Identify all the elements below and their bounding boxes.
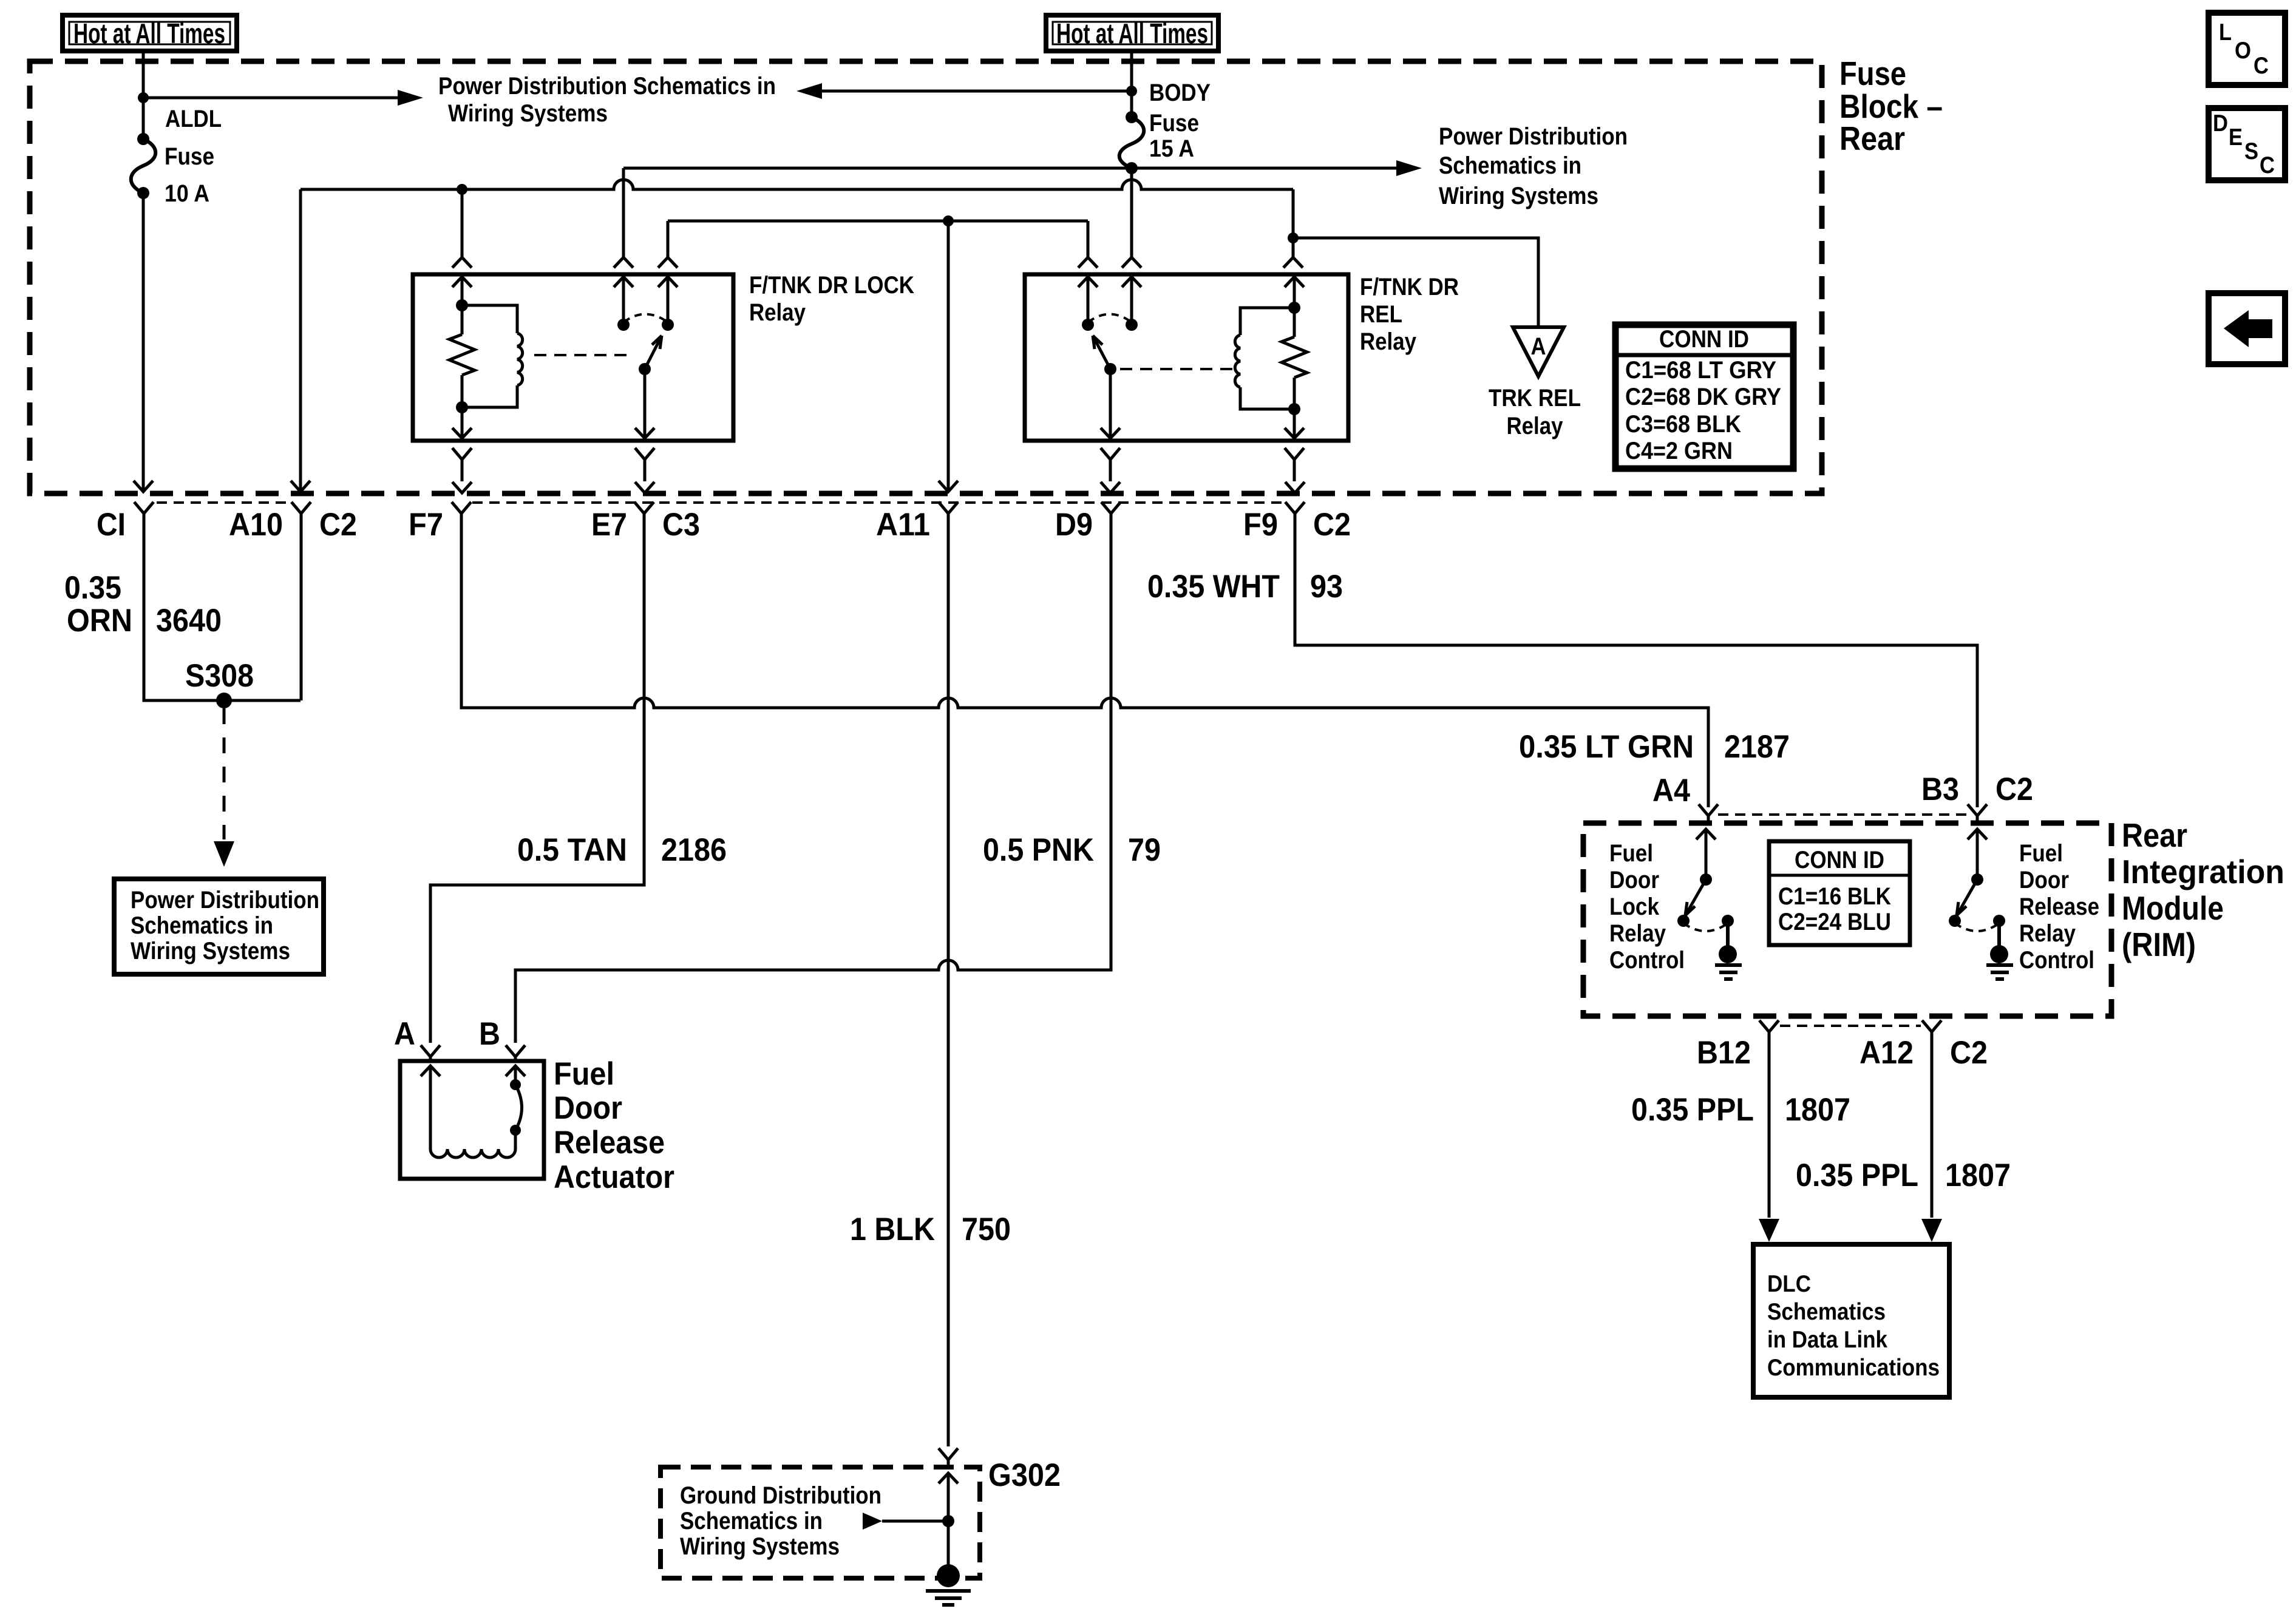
svg-text:Control: Control [1609,947,1685,974]
svg-text:C2=68 DK GRY: C2=68 DK GRY [1625,384,1781,410]
RIM pin B3 arrow in [1968,829,1987,839]
wire: bus line 3 (switch contacts link) [668,220,1088,223]
wire: line 1 corner down to LOCK relay switch contact [622,168,625,257]
svg-text:A11: A11 [876,507,930,543]
svg-text:Relay: Relay [1360,328,1417,355]
fuse ALDL 10A [131,133,156,199]
svg-text:Fuel: Fuel [554,1056,614,1092]
svg-text:A: A [1531,333,1546,360]
svg-text:2186: 2186 [661,832,727,868]
LOC box [2209,13,2285,85]
Hot at All Times box 2 [1046,15,1218,51]
svg-text:DLC: DLC [1767,1271,1811,1297]
svg-text:BODY: BODY [1149,80,1211,106]
svg-text:ORN: ORN [67,603,132,639]
svg-text:C: C [2260,152,2275,178]
DESC box [2209,108,2285,180]
svg-text:0.35: 0.35 [64,570,121,606]
svg-text:REL: REL [1360,301,1402,328]
svg-text:Actuator: Actuator [554,1159,674,1195]
wire: line2 right corner down [1292,189,1295,257]
svg-text:A10: A10 [229,507,283,543]
svg-text:C2: C2 [319,507,357,543]
RIM thin connector dash (top) [1718,813,1968,816]
svg-text:D: D [2213,110,2228,137]
REL relay coil (winding + resistor) [1235,302,1307,415]
svg-text:C2=24 BLU: C2=24 BLU [1778,909,1891,935]
RIM bottom thin connector dash [1780,1025,1921,1027]
svg-text:0.35 WHT: 0.35 WHT [1147,569,1280,605]
svg-text:Schematics in: Schematics in [131,912,273,939]
LOCK relay coil bottom exit (F7) [461,407,464,438]
node: BODY feed junction [1126,86,1137,97]
svg-text:Fuel: Fuel [2019,840,2063,867]
svg-text:0.5 TAN: 0.5 TAN [517,832,627,868]
svg-text:D9: D9 [1055,507,1093,543]
svg-text:2187: 2187 [1724,729,1790,765]
svg-text:Rear: Rear [1839,120,1905,157]
svg-text:F9: F9 [1243,507,1278,543]
svg-text:Schematics: Schematics [1767,1299,1886,1325]
back-arrow icon [2224,310,2272,347]
svg-text:Release: Release [2019,893,2099,920]
LOCK relay coil (resistor + winding) [449,299,523,413]
svg-text:Release: Release [554,1125,665,1161]
svg-text:F/TNK DR LOCK: F/TNK DR LOCK [749,272,914,299]
RIM right switch (Fuel Door Release Relay Control) [1949,873,2013,979]
wire: A10 to S308 [300,528,303,700]
Hot at All Times box 1 [63,15,237,51]
svg-text:Schematics in: Schematics in [1439,152,1581,179]
svg-text:S308: S308 [185,658,254,694]
svg-text:C1=68 LT GRY: C1=68 LT GRY [1625,357,1776,384]
RIM dashed outline (Rear Integration Module) [1583,823,2111,1016]
svg-text:C2: C2 [1313,507,1351,543]
svg-text:A4: A4 [1652,773,1690,808]
connector Y (G302 entry) [939,1448,958,1468]
connector Y (actuator B) [506,1045,525,1062]
wire: line2 left corner down to A10 [299,189,302,491]
wire: TRK REL relay feed [1293,238,1538,326]
wire from Hot box 1 [142,51,145,139]
svg-text:C3: C3 [662,507,700,543]
svg-text:Control: Control [2019,947,2094,974]
LOCK relay pin C3 contact entry [658,257,678,268]
svg-text:A12: A12 [1860,1035,1914,1071]
LOCK relay switch bottom exit (E7/C3) [635,428,654,438]
svg-text:B3: B3 [1921,771,1959,807]
connector Y (A10/C2) [291,502,311,529]
connector Y (B3/C2) [1968,804,1987,824]
svg-text:Relay: Relay [749,299,806,326]
svg-text:0.35 PPL: 0.35 PPL [1796,1158,1918,1193]
svg-text:Hot at All Times: Hot at All Times [1056,18,1208,49]
Fuel Door Release Actuator box [400,1061,544,1179]
REL relay coil entry (C2 leg) [1283,257,1303,268]
connector Y (actuator A) [421,1045,440,1062]
svg-text:C2: C2 [1950,1035,1988,1071]
RIM pin A12 exit [1922,1020,1941,1048]
svg-text:1 BLK: 1 BLK [850,1212,935,1247]
wire: bus line 1 (BODY fuse output) [623,167,1396,170]
fuse block dashed outline (Fuse Block - Rear) [30,61,1822,493]
actuator coil [430,1149,515,1158]
connector Y (CI) [134,502,154,529]
svg-text:Relay: Relay [2019,920,2076,947]
S308 dashed drop with arrow [223,708,226,839]
node S308 [216,693,232,708]
wire: BODY fuse down to REL switch contact [1130,168,1133,257]
svg-text:Wiring Systems: Wiring Systems [131,938,290,964]
wire: A11 down to G302 (1 BLK 750) [947,528,950,1446]
svg-text:E: E [2229,124,2243,151]
svg-text:Fuse: Fuse [1839,55,1906,92]
svg-text:Door: Door [554,1090,622,1126]
A11 drop from line 3 [947,221,950,491]
node: A11 tap [943,215,954,226]
svg-text:10 A: 10 A [165,180,209,207]
REL relay switch contact entries (D9 leg from line3, BODY leg) [1078,257,1098,268]
svg-text:C2: C2 [1995,771,2033,807]
wire: arrow to Power Distribution Schematics (left) [821,90,1132,93]
CONN ID table (fuse block) [1615,325,1793,469]
svg-text:Fuse: Fuse [165,143,214,170]
svg-text:3640: 3640 [156,603,222,639]
svg-text:B: B [479,1016,500,1052]
wire: CI to S308 [144,528,301,700]
svg-text:750: 750 [962,1212,1011,1247]
REL relay coil-switch dashed link [1120,368,1238,370]
fuse BODY 15A [1119,111,1144,174]
CONN ID table (RIM) [1769,841,1910,945]
svg-text:Hot at All Times: Hot at All Times [73,18,225,49]
svg-text:ALDL: ALDL [165,106,222,132]
wire: bus line 2 (A10 feed) with hops [301,180,1293,189]
svg-text:Power Distribution Schematics: Power Distribution Schematics in [438,73,776,100]
svg-text:Fuse: Fuse [1149,110,1199,137]
svg-text:Communications: Communications [1767,1355,1940,1381]
svg-text:Wiring Systems: Wiring Systems [448,100,608,127]
svg-text:O: O [2235,38,2251,64]
svg-text:G302: G302 [988,1457,1061,1493]
svg-text:CONN ID: CONN ID [1659,326,1749,353]
G302 dashed outline (Ground Distribution) [661,1467,980,1578]
svg-text:F7: F7 [409,507,443,543]
svg-text:A: A [394,1016,415,1052]
back-arrow box [2209,293,2285,364]
svg-text:Relay: Relay [1507,413,1564,439]
LOCK relay pin F7 entry chevrons [461,189,464,257]
RIM pin A4 arrow in [1696,829,1716,839]
wire: F9/C2 across to B3 (0.35 WHT 93) [1295,528,1977,807]
actuator contact arc [510,1079,522,1149]
svg-text:F/TNK DR: F/TNK DR [1360,274,1459,300]
node: ALDL feed junction [138,92,149,103]
svg-text:Power Distribution: Power Distribution [131,887,319,914]
TRK REL relay triangle [1513,327,1564,376]
svg-text:L: L [2219,19,2232,46]
F/TNK DR REL relay box [1025,274,1348,441]
svg-text:93: 93 [1310,569,1343,605]
node: line2 to LOCK coil [457,184,467,195]
svg-text:CI: CI [97,507,126,543]
svg-text:Schematics in: Schematics in [680,1508,823,1534]
svg-text:C: C [2254,53,2269,79]
svg-text:in Data Link: in Data Link [1767,1327,1887,1353]
REL relay switch bottom exit (D9) [1101,428,1120,438]
LOCK relay coil-switch dashed link [534,354,628,356]
svg-text:15 A: 15 A [1149,135,1194,162]
wire: E7/C3 down to actuator pin A (0.5 TAN 2186) [430,528,644,1043]
svg-text:S: S [2244,138,2258,164]
svg-text:1807: 1807 [1785,1092,1850,1128]
svg-text:0.35 PPL: 0.35 PPL [1631,1092,1754,1128]
LOCK relay switch [617,314,674,439]
svg-text:1807: 1807 [1945,1158,2011,1193]
actuator pin A arrow [421,1066,440,1076]
svg-text:E7: E7 [591,507,627,543]
svg-text:79: 79 [1128,832,1161,868]
node: REL coil / TRK REL tap [1288,232,1299,243]
svg-text:Rear: Rear [2122,816,2187,854]
svg-text:Relay: Relay [1609,920,1666,947]
connector Y (A4) [1699,804,1718,824]
svg-text:0.5 PNK: 0.5 PNK [983,832,1094,868]
RIM pin B12 exit [1759,1020,1779,1048]
LOCK relay pin E7 contact entry [614,257,633,268]
svg-text:Door: Door [2019,867,2069,893]
svg-text:0.35 LT GRN: 0.35 LT GRN [1519,729,1694,765]
thin connector dashes at fuse block bottom [157,501,290,504]
svg-text:Integration: Integration [2122,853,2284,890]
svg-text:C4=2 GRN: C4=2 GRN [1625,438,1733,464]
svg-text:CONN ID: CONN ID [1795,847,1884,873]
svg-text:Module: Module [2122,889,2224,927]
svg-text:TRK REL: TRK REL [1489,385,1581,412]
svg-text:(RIM): (RIM) [2122,926,2196,963]
svg-text:Fuel: Fuel [1609,840,1653,867]
Power Distribution Schematics reference box [114,879,324,974]
actuator pin B arrow [506,1066,525,1076]
wire: CI drop inside fuse block [142,193,145,491]
F/TNK DR LOCK relay box [413,274,733,441]
svg-text:Wiring Systems: Wiring Systems [1439,183,1598,209]
wire from Hot box 2 (BODY) [1130,51,1133,117]
svg-text:Lock: Lock [1609,893,1660,920]
svg-text:Wiring Systems: Wiring Systems [680,1533,840,1560]
wire: arrow to Power Distribution Schematics (right) [143,97,399,100]
svg-text:Door: Door [1609,867,1659,893]
node on line 1 at BODY fuse [1126,163,1137,174]
svg-text:C1=16 BLK: C1=16 BLK [1778,883,1891,910]
svg-text:Ground Distribution: Ground Distribution [680,1482,881,1509]
wire: D9 down-left to actuator pin B (0.5 PNK 79) with hop [515,528,1111,1043]
svg-text:C3=68 BLK: C3=68 BLK [1625,411,1741,438]
svg-text:B12: B12 [1697,1035,1751,1071]
REL relay switch [1082,314,1138,439]
arrow at border (CI) [134,481,153,492]
DLC reference box [1753,1244,1949,1397]
arrow at border (A10) [291,481,310,492]
REL relay coil bottom exit (F9/C2) [1293,409,1296,438]
wire: F7 down and across (0.35 LT GRN 2187) with hops [461,528,1708,807]
G302 inside: arrow up, tap, ground [863,1473,971,1605]
RIM left switch (Fuel Door Lock Relay Control) [1677,873,1742,979]
svg-text:Power Distribution: Power Distribution [1439,123,1628,150]
